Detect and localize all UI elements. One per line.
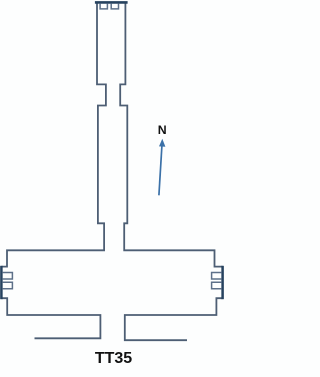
node: right end niche upper — [212, 273, 222, 280]
node: right end niche lower — [212, 282, 222, 289]
svg-text:TT35: TT35 — [95, 350, 132, 367]
wire: plan outline right side (chapel wall, corridor, transverse hall, lower lip) — [120, 4, 222, 341]
node: north arrow shaft — [159, 146, 162, 195]
node: chapel niche left — [100, 3, 107, 8]
wire: plan outline left side (chapel wall, corridor, transverse hall, lower lip) — [1, 4, 106, 339]
node: north arrow head — [159, 139, 165, 147]
node: left end niche upper — [2, 273, 12, 280]
node: chapel niche right — [111, 3, 118, 8]
node: dark outer wall right end — [221, 266, 224, 299]
node: left end niche lower — [2, 282, 12, 289]
node: dark top wall of chapel — [95, 1, 128, 4]
svg-text:N: N — [158, 123, 167, 137]
node: dark outer wall left end — [0, 266, 3, 299]
